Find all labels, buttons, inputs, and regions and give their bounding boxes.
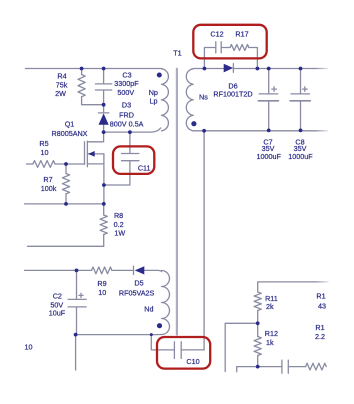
- junction node C2 top: [75, 269, 79, 273]
- junction node drain: [102, 130, 106, 134]
- wire bottom feedback rail: [237, 367, 282, 372]
- svg-text:C11: C11: [138, 164, 151, 173]
- wire gate lead: [27, 163, 85, 165]
- capacitor C3: [95, 69, 111, 105]
- svg-text:3300pF: 3300pF: [114, 79, 139, 88]
- wire cap to resistor: [289, 366, 306, 368]
- svg-text:10: 10: [98, 288, 106, 297]
- junction node R12 bottom: [256, 365, 260, 369]
- junction node C11 top tap: [128, 130, 132, 134]
- transformer T1 secondary winding Ns: [186, 69, 193, 131]
- svg-text:R8005ANX: R8005ANX: [52, 129, 88, 138]
- svg-text:2k: 2k: [266, 302, 274, 311]
- wire C10 right lead: [182, 349, 205, 351]
- svg-text:1k: 1k: [266, 338, 274, 347]
- wire secondary bottom rail: [193, 130, 327, 132]
- diode D6 cathode bar: [232, 64, 234, 73]
- resistor R17: [230, 45, 249, 51]
- highlight box C12 R17: [193, 25, 266, 59]
- svg-text:C12: C12: [210, 30, 223, 39]
- wire feedback tap left: [225, 323, 258, 371]
- svg-text:RF1001T2D: RF1001T2D: [213, 90, 252, 99]
- plus sign C8: [303, 87, 308, 92]
- plus sign C7: [272, 87, 277, 92]
- capacitor C8: [291, 69, 310, 131]
- capacitor C13: [282, 360, 288, 373]
- junction node R4/C3/D3: [102, 103, 106, 107]
- junction node C12 tap: [203, 67, 207, 71]
- svg-text:10uF: 10uF: [49, 309, 66, 318]
- capacitor C7: [259, 69, 278, 131]
- junction node C3 top: [102, 67, 106, 71]
- diode D3: [98, 112, 108, 114]
- wire fade right top rail: [315, 63, 332, 73]
- wire fade right feedback wire: [316, 276, 332, 286]
- svg-text:1000uF: 1000uF: [288, 152, 313, 161]
- transistor Q1 body line: [88, 153, 104, 155]
- wire dangling below C2 node: [75, 335, 77, 370]
- junction node C11 bottom: [102, 183, 106, 187]
- svg-text:R8: R8: [114, 211, 123, 220]
- phase dot Nd: [157, 323, 162, 328]
- wire primary bottom: [104, 128, 161, 132]
- diode D3 body: [99, 113, 109, 124]
- svg-text:R5: R5: [39, 139, 48, 148]
- svg-text:100k: 100k: [41, 184, 57, 193]
- wire D3 anode lead: [103, 125, 105, 132]
- capacitor C2: [68, 270, 86, 334]
- wire primary lower rail: [25, 203, 104, 205]
- junction node R7 bottom: [64, 202, 68, 206]
- plus sign C2: [79, 293, 83, 297]
- capacitor C11: [104, 132, 139, 185]
- wire secondary top rail: [193, 68, 224, 70]
- svg-text:10: 10: [41, 148, 49, 157]
- capacitor C10: [174, 342, 181, 359]
- phase dot Ns: [191, 121, 196, 126]
- svg-text:500V: 500V: [117, 88, 134, 97]
- transistor Q1 gate bar: [84, 142, 86, 165]
- wire R8 bottom rail: [28, 245, 104, 247]
- transformer T1 primary winding Np: [162, 69, 169, 131]
- svg-text:1000uF: 1000uF: [257, 152, 282, 161]
- junction node Nd bottom: [150, 333, 153, 336]
- svg-text:C10: C10: [186, 357, 199, 366]
- junction node R4 top: [80, 67, 84, 71]
- svg-text:D5: D5: [134, 279, 143, 288]
- svg-text:R17: R17: [235, 30, 248, 39]
- wire C12 branch left: [204, 48, 215, 69]
- svg-text:R7: R7: [43, 175, 52, 184]
- resistor R11: [254, 292, 261, 311]
- junction node C7 bottom: [267, 129, 271, 133]
- transistor Q1 arrow: [88, 151, 95, 157]
- transistor Q1 channel: [86, 141, 88, 167]
- svg-text:R4: R4: [57, 72, 66, 81]
- wire R9 to D5: [112, 269, 134, 271]
- resistor R12: [254, 337, 261, 356]
- wire Nd bottom lead: [151, 334, 161, 336]
- svg-text:C2: C2: [53, 292, 62, 301]
- junction node gate: [64, 162, 68, 166]
- junction node source rail: [102, 202, 106, 206]
- wire R11 bottom lead: [257, 311, 259, 324]
- wire secondary to C10 vertical: [203, 131, 205, 350]
- diode D6 body: [224, 64, 233, 73]
- svg-text:Lp: Lp: [150, 97, 158, 106]
- svg-text:1W: 1W: [114, 228, 125, 237]
- svg-text:Q1: Q1: [65, 119, 75, 128]
- wire secondary rail after D6: [233, 68, 327, 70]
- svg-text:R1: R1: [316, 292, 325, 301]
- wire D3 cathode lead: [103, 105, 105, 113]
- svg-text:10: 10: [25, 343, 33, 352]
- highlight box C10: [157, 337, 210, 369]
- svg-text:R12: R12: [265, 329, 278, 338]
- svg-text:R1: R1: [315, 323, 324, 332]
- transformer T1 core: [176, 69, 178, 335]
- svg-text:T1: T1: [173, 49, 181, 58]
- diode D5 cathode bar: [133, 266, 135, 274]
- wire D5 to Nd winding: [144, 270, 161, 271]
- resistor R4: [78, 75, 85, 97]
- phase dot Np: [157, 73, 162, 78]
- svg-text:43: 43: [318, 302, 326, 311]
- highlight box C11: [113, 146, 154, 174]
- wire R12 leads: [257, 323, 259, 366]
- svg-text:2.2: 2.2: [315, 332, 325, 341]
- resistor R7: [62, 174, 69, 194]
- wire R4 top lead: [81, 69, 83, 75]
- junction node secondary bottom tap: [202, 129, 206, 133]
- wire R11 top: [258, 282, 329, 292]
- wire fade right bottom rail: [315, 125, 332, 135]
- junction node C8 top: [299, 67, 303, 71]
- junction node C8 bottom: [299, 129, 303, 133]
- wire R8 leads: [103, 204, 105, 246]
- wire R7 leads: [65, 164, 67, 204]
- svg-text:Nd: Nd: [144, 305, 153, 314]
- wire top primary rail: [26, 68, 162, 70]
- resistor R9: [92, 267, 112, 274]
- transistor Q1 source lead: [87, 154, 104, 204]
- svg-text:RF05VA2S: RF05VA2S: [119, 289, 155, 298]
- junction node C2 bottom: [74, 333, 78, 337]
- svg-text:800V 0.5A: 800V 0.5A: [110, 120, 144, 129]
- diode D5 body: [135, 266, 145, 274]
- resistor R5: [33, 161, 55, 168]
- wire R4 bottom lead: [82, 97, 104, 105]
- svg-text:R9: R9: [97, 279, 106, 288]
- junction node C7 top: [267, 67, 271, 71]
- resistor R16: [306, 363, 327, 370]
- wire aux rail: [25, 269, 92, 271]
- transistor Q1 drain lead: [87, 132, 103, 142]
- wire R17 to rail: [249, 48, 258, 69]
- svg-text:2W: 2W: [55, 89, 66, 98]
- wire Nd node down to C10: [151, 335, 174, 350]
- resistor R8: [100, 215, 107, 235]
- junction node R11/R12: [256, 321, 260, 325]
- capacitor C12: [216, 42, 221, 53]
- wire C12 to R17: [221, 47, 230, 49]
- transformer T1 winding Nd: [162, 271, 170, 335]
- svg-text:FRD: FRD: [119, 111, 134, 120]
- svg-text:Ns: Ns: [199, 92, 208, 101]
- junction node R17 tap: [256, 67, 260, 71]
- wire C2 bottom rail: [76, 334, 152, 336]
- svg-text:D3: D3: [122, 101, 131, 110]
